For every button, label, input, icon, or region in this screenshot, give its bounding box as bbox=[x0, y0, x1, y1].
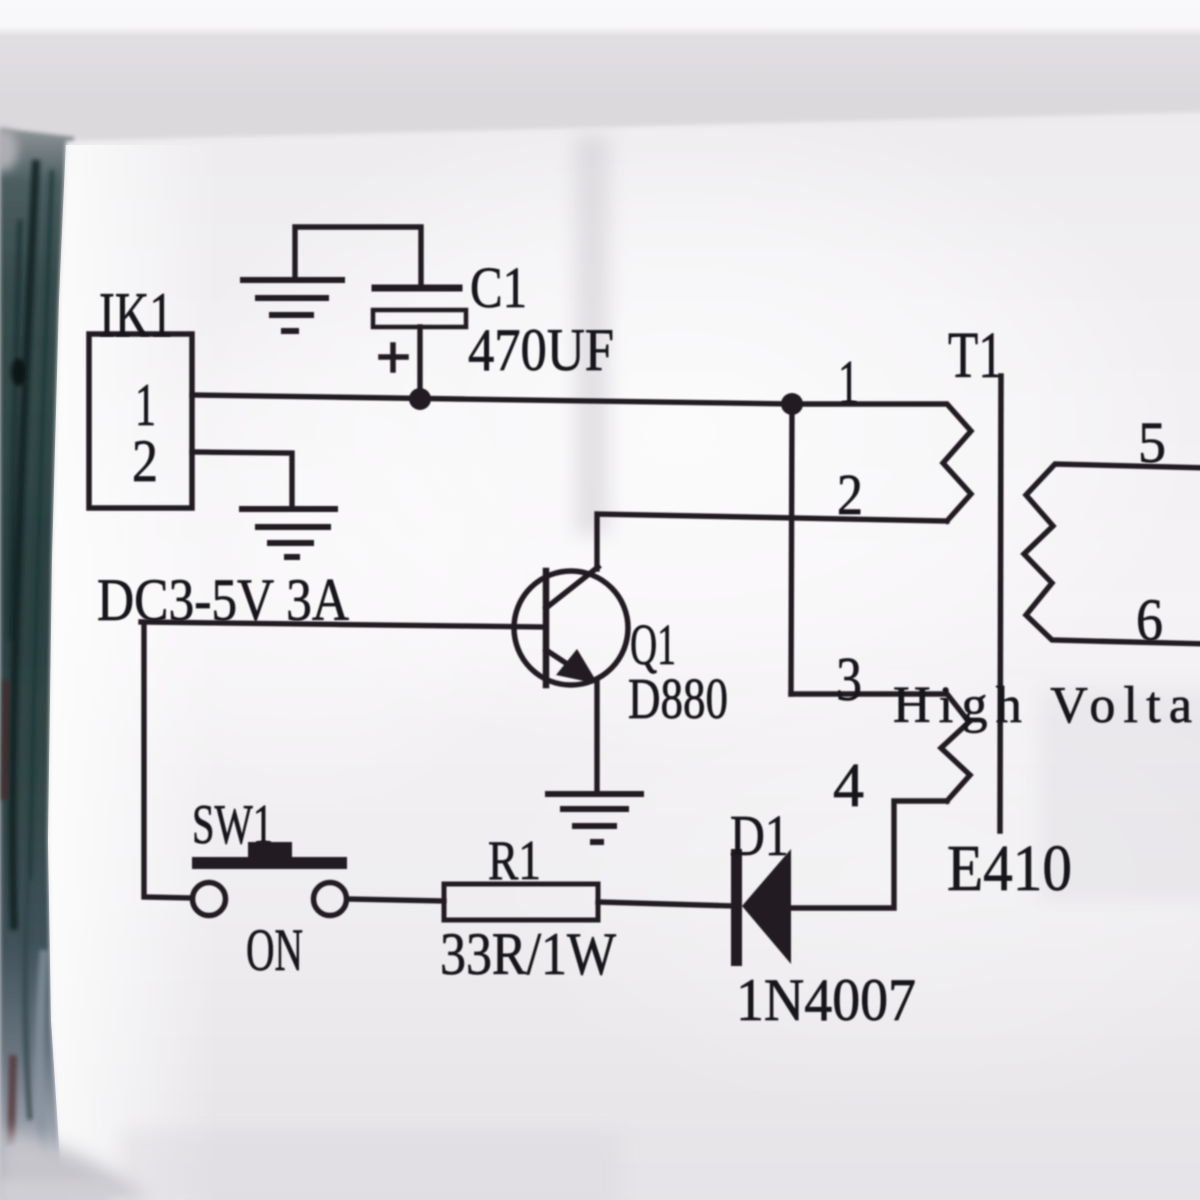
transformer core bbox=[1000, 376, 1001, 831]
ground (top, near C1) bbox=[243, 280, 342, 331]
svg-text:2: 2 bbox=[837, 462, 863, 527]
wire C1 top to ground loop bbox=[295, 227, 421, 285]
svg-text:R1: R1 bbox=[488, 830, 541, 892]
wire pin2 to collector bbox=[597, 514, 947, 569]
ground (below Q1 emitter) bbox=[548, 794, 641, 842]
resistor R1 bbox=[444, 884, 598, 920]
svg-text:1: 1 bbox=[838, 349, 859, 417]
svg-text:DC3-5V 3A: DC3-5V 3A bbox=[97, 567, 349, 633]
wire base bbox=[141, 622, 546, 627]
transistor Q1 bbox=[514, 567, 628, 685]
svg-text:ON: ON bbox=[246, 917, 303, 983]
svg-text:33R/1W: 33R/1W bbox=[440, 921, 616, 987]
node A junction dot bbox=[781, 393, 803, 415]
pale blob at wood top bbox=[0, 129, 18, 171]
svg-text:5: 5 bbox=[1138, 410, 1166, 475]
wire R1 to D1 bbox=[598, 902, 734, 906]
svg-text:C1: C1 bbox=[470, 255, 527, 320]
svg-text:470UF: 470UF bbox=[468, 317, 614, 383]
transformer T1 primary winding 1-2 bbox=[794, 404, 971, 521]
svg-text:D1: D1 bbox=[730, 803, 789, 868]
svg-text:E410: E410 bbox=[947, 832, 1072, 905]
diode D1 bbox=[731, 849, 791, 966]
ground (below JK1 pin 2) bbox=[242, 509, 335, 557]
wire DC input down to switch bbox=[144, 622, 192, 898]
transformer T1 feedback winding 3-4 bbox=[791, 694, 970, 801]
wire JK1 pin2 to ground bbox=[192, 452, 292, 506]
svg-text:1N4007: 1N4007 bbox=[736, 967, 916, 1033]
wire pin4 to diode bbox=[791, 801, 947, 908]
svg-text:3: 3 bbox=[836, 646, 862, 714]
bottom-left pale blur bbox=[0, 1132, 150, 1200]
capacitor C1 bbox=[373, 288, 466, 398]
wood table edge strip bbox=[0, 128, 80, 1200]
connector JK1 bbox=[89, 334, 192, 508]
svg-text:IK1: IK1 bbox=[99, 280, 173, 350]
svg-text:4: 4 bbox=[833, 752, 864, 820]
wire pin1 JK1 to node A bbox=[192, 395, 794, 404]
wire switch to R1 bbox=[347, 899, 444, 901]
svg-text:T1: T1 bbox=[948, 319, 1003, 392]
svg-text:SW1: SW1 bbox=[192, 794, 273, 856]
svg-text:D880: D880 bbox=[628, 666, 728, 731]
wire emitter to ground bbox=[594, 682, 599, 792]
svg-text:2: 2 bbox=[132, 428, 158, 494]
wire node A down to pin3 bbox=[791, 404, 792, 694]
svg-text:6: 6 bbox=[1136, 587, 1163, 653]
node B junction dot (C1 lead) bbox=[409, 388, 431, 410]
transformer secondary winding 5-6 bbox=[1024, 464, 1200, 644]
switch SW1 bbox=[193, 842, 347, 916]
